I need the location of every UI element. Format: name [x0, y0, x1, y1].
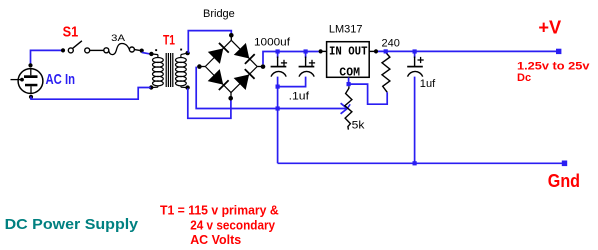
svg-text:AC Volts: AC Volts [190, 233, 241, 247]
AC source (plug) symbol [11, 63, 43, 99]
wire: AC In top to switch [31, 50, 64, 67]
wire: T1 primary bottom to AC In bottom [31, 88, 151, 100]
wire: S1 to fuse [90, 49, 104, 51]
svg-text:T1 = 115 v primary &: T1 = 115 v primary & [160, 203, 279, 217]
svg-text:AC In: AC In [46, 71, 76, 88]
node: C3 ground junction [413, 161, 417, 165]
svg-text:1uf: 1uf [420, 78, 436, 90]
capacitor C1 1000uf [271, 52, 288, 77]
node: wiper run junction [276, 106, 280, 110]
node: rail junction C3 top [413, 49, 417, 53]
diode D4 (bottom-right) [235, 69, 255, 89]
node: bridge right [261, 64, 266, 69]
node: bridge top [229, 33, 234, 38]
svg-text:T1: T1 [163, 32, 175, 48]
node: rail junction R1 top [384, 49, 388, 53]
potentiometer R2 5k [345, 86, 352, 129]
node: rail junction C2 top [304, 49, 308, 53]
svg-text:COM: COM [339, 67, 360, 80]
resistor R1 240 [382, 53, 390, 93]
wire: bridge right to LM317 IN [263, 52, 319, 65]
diode D2 (top-right) [235, 44, 255, 64]
node: bridge bottom [228, 96, 233, 101]
svg-text:Dc: Dc [517, 72, 531, 84]
capacitor C3 1uf [407, 52, 424, 164]
svg-text:1.25v to 25v: 1.25v to 25v [517, 61, 591, 73]
terminal: +V [556, 49, 561, 54]
svg-text:Gnd: Gnd [548, 171, 580, 191]
wire: C1 bottom down to ground rail [277, 77, 279, 164]
transformer T1 [149, 49, 190, 90]
node: fuse output dot [140, 49, 144, 53]
svg-text:+V: +V [538, 17, 561, 37]
wire: LM317 OUT to +V [378, 50, 557, 52]
svg-text:24 v secondary: 24 v secondary [190, 218, 275, 232]
svg-text:S1: S1 [63, 24, 79, 41]
wire: T1 secondary top to bridge top [188, 31, 231, 53]
wire: R1 bottom to COM junction [350, 84, 387, 104]
node: C1-C2 bottom junction [276, 85, 280, 89]
node: bridge left [197, 64, 202, 69]
capacitor C2 .1uf [299, 52, 316, 77]
wire: fuse to T1 primary top [142, 52, 152, 54]
node: COM junction [347, 82, 351, 86]
fuse 3A [104, 43, 140, 54]
wire: C2 bottom link to C1 [278, 77, 306, 87]
svg-text:5k: 5k [352, 119, 365, 131]
diode D1 (top-left) [209, 42, 229, 62]
svg-text:3A: 3A [111, 33, 125, 43]
regulator U1 LM317 [319, 42, 379, 80]
node: rail junction C1 top [276, 49, 280, 53]
wiper arrow of 5k pot [341, 103, 351, 114]
svg-text:240: 240 [382, 37, 400, 49]
diode D3 (bottom-left) [209, 70, 229, 90]
node: junction dot before S1 [61, 48, 65, 52]
wire: bridge left down to pot wiper run [196, 67, 346, 109]
svg-text:.1uf: .1uf [289, 91, 310, 103]
svg-text:1000uf: 1000uf [254, 36, 291, 48]
svg-text:IN OUT: IN OUT [329, 45, 368, 58]
svg-text:LM317: LM317 [329, 24, 363, 36]
switch S1 [68, 41, 89, 53]
terminal: Gnd [562, 161, 567, 167]
svg-text:DC Power Supply: DC Power Supply [5, 216, 139, 233]
wire: ground rail [278, 162, 562, 164]
wire: T1 secondary bottom to bridge bottom [188, 88, 231, 118]
wire: LM317 COM stub [348, 77, 350, 84]
svg-text:Bridge: Bridge [203, 8, 235, 20]
bridge rectifier [197, 33, 265, 100]
